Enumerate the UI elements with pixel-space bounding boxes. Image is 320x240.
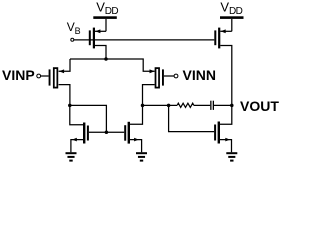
VDD label 1 <box>96 0 118 17</box>
node VOUT <box>230 104 234 108</box>
transistor M3 (mirror NMOS, diode) <box>71 123 89 153</box>
wire mirror diode connection <box>70 105 107 132</box>
svg-text:DD: DD <box>105 6 119 17</box>
svg-text:VOUT: VOUT <box>240 98 279 114</box>
wire VB net <box>74 39 215 41</box>
wire VINN lead <box>164 75 174 77</box>
VINN terminal <box>174 74 178 78</box>
ground 2 <box>136 152 147 161</box>
ground 1 <box>66 152 77 161</box>
wire VDD1 to M5 source <box>105 19 107 31</box>
wire VINP lead <box>41 75 49 77</box>
transistor M2 (VINN PMOS) <box>143 68 164 105</box>
wire mirror gate net <box>89 131 124 133</box>
ground 3 <box>226 152 237 161</box>
svg-text:VINN: VINN <box>183 67 216 83</box>
node mirror gate <box>105 131 109 135</box>
VDD rail 2 <box>220 16 244 19</box>
svg-text:VINP: VINP <box>2 67 35 83</box>
transistor M4 (mirror NMOS) <box>124 105 142 152</box>
wire VDD2 to M7 source <box>231 19 233 31</box>
VDD label 2 <box>220 0 242 17</box>
capacitor Cc <box>210 101 214 110</box>
VDD rail 1 <box>93 16 117 19</box>
wire common source net <box>70 59 155 71</box>
node M1 drain <box>68 104 72 108</box>
node first-stage output <box>141 104 145 108</box>
transistor M5 (tail PMOS) <box>89 28 106 59</box>
VINP terminal <box>37 74 41 78</box>
transistor M6 (output NMOS) <box>214 105 232 152</box>
svg-text:DD: DD <box>229 6 243 17</box>
wire capacitor to VOUT node <box>214 104 232 106</box>
VB label <box>67 20 81 36</box>
transistor M7 (second-stage PMOS) <box>214 28 232 106</box>
VB terminal <box>71 38 74 41</box>
node tail-drain junction <box>104 57 108 61</box>
transistor M1 (VINP PMOS) <box>49 59 70 105</box>
svg-text:B: B <box>75 26 81 36</box>
wire M1 drain to M3 <box>70 105 83 124</box>
wire first-stage output to resistor <box>143 104 178 106</box>
node M6 gate branch <box>167 104 171 108</box>
resistor Rz <box>177 103 194 107</box>
wire M6 gate branch <box>169 105 215 131</box>
wire resistor to capacitor <box>194 104 210 106</box>
